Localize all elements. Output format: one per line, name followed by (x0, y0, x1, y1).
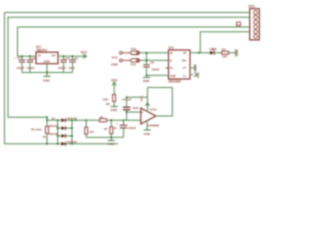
svg-text:R5: R5 (104, 127, 108, 131)
wire VCC to R2 (113, 83, 115, 95)
svg-text:IC1A: IC1A (150, 107, 158, 111)
svg-text:VI: VI (38, 53, 41, 57)
IC3 right pin FT stub (190, 67, 194, 69)
wire mic link vertical (146, 53, 148, 62)
wire diode row 1 (47, 119, 61, 121)
svg-text:GND: GND (44, 59, 50, 63)
junction dot net4/LED (198, 52, 200, 54)
svg-text:R1: R1 (43, 135, 47, 139)
svg-text:V+: V+ (183, 74, 187, 78)
svg-text:+: + (141, 110, 143, 114)
svg-text:GND: GND (43, 79, 51, 83)
connection pin of pad P11 (120, 59, 131, 62)
svg-text:100nF: 100nF (27, 66, 35, 70)
wire R6 to opamp inverting input (107, 119, 141, 121)
wire R2 to gnd (113, 102, 115, 107)
svg-text:LM386N: LM386N (148, 124, 160, 128)
svg-text:VCC: VCC (111, 78, 118, 82)
diode D1 (52, 116, 77, 122)
wire mic2 to IC3 (140, 59, 169, 61)
svg-text:C6: C6 (32, 56, 36, 60)
supply symbol VCC arrow at IC3 (rotated) (194, 73, 198, 77)
capacitor C5 (68, 56, 78, 72)
capacitor C12 (116, 120, 136, 137)
svg-text:100nF: 100nF (58, 66, 66, 70)
svg-text:GND: GND (111, 108, 119, 112)
junction dots psu rail (21, 55, 73, 73)
svg-text:10K: 10K (103, 98, 109, 102)
ground symbol below IC2 (44, 75, 51, 77)
microphone pad P10 (131, 51, 140, 54)
svg-text:R4: R4 (222, 48, 226, 52)
wire bias row (127, 96, 148, 98)
wire IC3 out to LED (190, 52, 210, 54)
ground symbol below opamp (144, 129, 151, 131)
svg-text:-: - (141, 118, 142, 122)
svg-text:C7: C7 (17, 56, 21, 60)
resistor R1 (31, 117, 49, 144)
junction dot bias row (126, 96, 128, 98)
junction dots battery section (46, 116, 124, 144)
svg-text:SV1: SV1 (249, 5, 256, 9)
wire opamp gnd stub (146, 120, 148, 130)
svg-text:20 ohm: 20 ohm (31, 128, 42, 132)
svg-text:C9 1uF: C9 1uF (122, 98, 132, 102)
svg-text:R9: R9 (106, 102, 110, 106)
wire net3 supply-in from connector pin3 (18, 27, 250, 56)
junction dots mic wires (146, 52, 148, 61)
IC3 right pin V+ stub (190, 74, 193, 76)
ground symbol at IC3 FT pin (rotated) (194, 64, 196, 71)
LED LED1 (209, 47, 217, 55)
svg-text:100uF: 100uF (17, 66, 25, 70)
svg-text:4k7: 4k7 (89, 130, 94, 134)
wire LED to R4 (214, 52, 221, 54)
wire ground rail of psu section (22, 72, 73, 74)
wire net1 bottom loop from connector pin1 (5, 13, 250, 144)
wire gnd stub below R5 (110, 137, 112, 140)
wire net4 from connector pin5 to IC3 (200, 32, 249, 53)
svg-text:P11: P11 (131, 62, 137, 66)
svg-text:GND: GND (143, 79, 151, 83)
svg-text:+: + (68, 56, 70, 60)
svg-text:VCC: VCC (81, 50, 88, 54)
ground symbol below R2 (111, 106, 118, 108)
svg-text:D1: D1 (52, 116, 56, 120)
wire diode row1 right (66, 119, 73, 121)
svg-text:1k: 1k (114, 126, 117, 130)
diode D3 (48, 132, 72, 138)
wire diode left link (57, 120, 59, 144)
ground symbol below R5 (108, 140, 115, 142)
supply symbol VCC arrow above R2 (112, 82, 116, 86)
wire row C to opamp (72, 119, 100, 121)
svg-text:R: R (170, 59, 172, 63)
supply symbol VCC arrow (83, 54, 87, 58)
capacitor C9 (122, 97, 139, 120)
junction dot C8 gnd node (146, 75, 148, 77)
IC3 ISD1820 box (169, 46, 191, 84)
svg-text:7805TV: 7805TV (36, 48, 48, 52)
wire row E (86, 136, 123, 138)
resistor R4 (222, 48, 229, 59)
wire 7805 output rail (58, 55, 86, 57)
svg-text:10uF: 10uF (132, 106, 139, 110)
wire IC2 gnd stub (46, 64, 48, 76)
resistor R3 vertical (85, 120, 95, 137)
wire C8 to IC3 gnd pin (147, 74, 169, 76)
wire R4 to gnd (229, 52, 236, 54)
connector SV1 (250, 9, 260, 40)
diode D2 (48, 124, 72, 130)
svg-text:ISD1820: ISD1820 (169, 80, 182, 84)
supply symbol VCC arrow above opamp (146, 102, 150, 106)
microphone pad P11 (131, 59, 140, 62)
svg-text:GND: GND (194, 64, 198, 72)
svg-text:+: + (14, 56, 16, 60)
wire noninverting input (127, 111, 141, 113)
voltage regulator IC2 7805TV (36, 45, 58, 64)
svg-text:SP: SP (183, 51, 187, 55)
svg-text:C8: C8 (150, 61, 154, 65)
capacitor C4 (58, 56, 69, 72)
svg-text:GND: GND (111, 62, 119, 66)
ground symbol below C8 (143, 76, 150, 78)
svg-text:IC3: IC3 (169, 46, 174, 50)
svg-text:P10: P10 (131, 47, 137, 51)
svg-text:GND: GND (144, 132, 152, 136)
diode D4 (61, 140, 77, 146)
svg-text:PL: PL (170, 66, 174, 70)
capacitor C6 (27, 56, 36, 72)
svg-text:220: 220 (222, 54, 227, 58)
svg-text:100uF: 100uF (128, 126, 136, 130)
svg-text:GND: GND (170, 74, 176, 78)
svg-text:FT: FT (183, 66, 187, 70)
svg-text:VO: VO (52, 53, 57, 57)
svg-text:VCC: VCC (196, 71, 200, 78)
svg-text:VCC: VCC (140, 96, 144, 102)
junction dot noninverting (126, 111, 128, 113)
IC3 left pin stubs (166, 67, 169, 69)
wire opamp feedback loop (148, 88, 173, 117)
resistor R6 horizontal (100, 115, 107, 122)
junction dots row E (110, 119, 112, 138)
fuse F1 on net3 (236, 22, 240, 27)
svg-text:LED1: LED1 (209, 47, 217, 51)
svg-text:GND: GND (108, 142, 116, 146)
svg-text:100nF: 100nF (152, 68, 160, 72)
wire mic1 to IC3 (140, 52, 169, 54)
resistor R5 (104, 120, 117, 137)
svg-text:10uF: 10uF (69, 66, 76, 70)
svg-text:IN: IN (170, 51, 173, 55)
wire net2 left loop from connector pin2 (8, 17, 250, 117)
svg-text:1k: 1k (100, 115, 104, 119)
svg-text:+: + (116, 122, 118, 126)
wire diode right link (71, 120, 73, 144)
svg-text:VCC: VCC (112, 56, 119, 60)
svg-text:C5: C5 (74, 56, 78, 60)
resistor R2 (103, 95, 116, 107)
ground symbol right of R4 (rotated) (235, 49, 237, 56)
op-amp IC1A triangle (141, 107, 159, 127)
svg-text:SN: SN (182, 59, 186, 63)
capacitor C8 (143, 61, 160, 76)
connection pin of pad P10 (120, 51, 131, 54)
svg-text:GND: GND (235, 49, 239, 57)
capacitor C7 (14, 56, 26, 73)
